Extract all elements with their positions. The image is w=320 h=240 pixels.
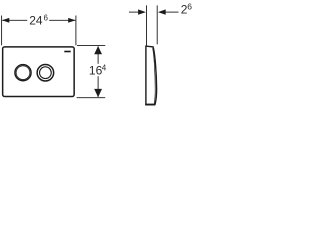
side profile outline: [146, 46, 157, 104]
width dimension: extension line right: [75, 16, 77, 46]
svg-text:16: 16: [89, 64, 103, 78]
width dimension 24.6 : extension line left: [1, 16, 3, 46]
left button outer ring: [15, 65, 31, 81]
right button inner ring: [40, 67, 52, 79]
thickness dimension 2.6 : extension line left: [146, 5, 148, 45]
height dimension line segments: [97, 46, 99, 63]
width dimension right arrow: [68, 18, 75, 23]
svg-text:4: 4: [102, 64, 107, 73]
thickness dimension right tail line: [165, 11, 179, 13]
side profile bottom thick edge: [145, 104, 155, 106]
flush plate front view outline: [3, 47, 75, 97]
svg-text:6: 6: [187, 2, 192, 12]
height dimension: extension line bottom: [77, 97, 106, 99]
width dimension left arrow: [2, 18, 9, 23]
svg-text:6: 6: [44, 13, 49, 22]
height dimension down arrow: [94, 89, 102, 97]
thickness dimension left tail line: [129, 11, 139, 13]
logo dash: [64, 51, 70, 53]
thickness dimension: extension line right: [156, 5, 158, 44]
height dimension up arrow: [94, 46, 102, 54]
thickness dimension right-pointing arrow: [138, 9, 146, 14]
side profile inner face line: [153, 48, 156, 104]
svg-text:24: 24: [29, 14, 43, 28]
width dimension line segments: [2, 19, 27, 21]
height dimension 16.4 : extension line top: [77, 45, 105, 47]
right button outer ring: [37, 64, 54, 81]
left button inner ring: [16, 66, 30, 80]
thickness dimension left-pointing arrow: [158, 9, 166, 14]
